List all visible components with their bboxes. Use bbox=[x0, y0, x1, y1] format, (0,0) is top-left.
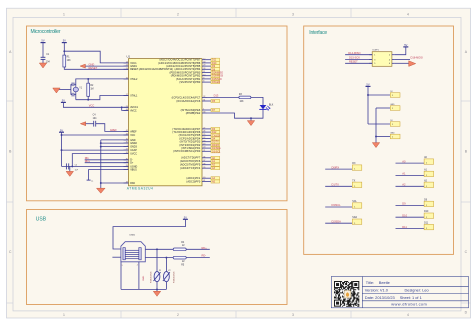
svg-text:3: 3 bbox=[374, 59, 375, 61]
svg-text:9: 9 bbox=[203, 78, 204, 80]
net label RD- bbox=[85, 156, 90, 160]
wire PAD row bbox=[101, 182, 129, 184]
title block text bbox=[365, 280, 429, 307]
resistor R3 bbox=[239, 94, 251, 103]
wire R4 to RD+ bbox=[186, 248, 210, 250]
svg-text:TX: TX bbox=[352, 180, 355, 182]
power +5V symbol at R1 bbox=[62, 39, 67, 43]
net label GND1 vertical bbox=[143, 276, 145, 281]
svg-text:1: 1 bbox=[203, 109, 204, 111]
svg-text:D11: D11 bbox=[424, 223, 429, 225]
svg-text:5: 5 bbox=[122, 265, 123, 267]
U1 value ATMEGA32U4 bbox=[127, 187, 154, 191]
wire GND row1 bbox=[101, 139, 129, 141]
ground port arrow right at ICSP bbox=[409, 61, 416, 67]
USB connector contacts bbox=[123, 248, 141, 260]
wire ICSP RESET bbox=[345, 62, 372, 64]
svg-text:D16-MOSI: D16-MOSI bbox=[411, 56, 424, 60]
wire UVCC row bbox=[72, 154, 128, 167]
node VCC row bbox=[61, 134, 63, 136]
ground at crystal bbox=[53, 88, 60, 93]
wire C1 to gnd bbox=[42, 59, 44, 63]
value label PGB1010603 Z1 bbox=[150, 272, 152, 283]
svg-text:1: 1 bbox=[392, 95, 393, 97]
USB connector USB1 shell bbox=[121, 235, 145, 262]
svg-text:A1: A1 bbox=[402, 172, 406, 176]
net label D14-MISO bbox=[348, 51, 360, 55]
wire AVCC1 net bbox=[63, 102, 128, 107]
node header tap1 bbox=[367, 94, 369, 96]
wire UCAP row bbox=[62, 149, 129, 151]
wire ICSP SCK bbox=[345, 58, 372, 60]
svg-text:26: 26 bbox=[203, 131, 205, 133]
power +5V symbol at VCC bbox=[59, 128, 64, 132]
svg-text:(ICP3/CLK0/OC4A)PC7: (ICP3/CLK0/OC4A)PC7 bbox=[172, 96, 201, 99]
svg-text:5: 5 bbox=[374, 63, 375, 65]
wire VBUS stub down bbox=[88, 169, 90, 180]
svg-text:1M: 1M bbox=[90, 88, 93, 90]
svg-text:Date: 2013/10/23: Date: 2013/10/23 bbox=[365, 295, 395, 300]
title block frame bbox=[331, 277, 468, 308]
svg-text:GND: GND bbox=[390, 104, 395, 106]
wire R3 to LED bbox=[251, 97, 263, 105]
ESD diode Z2 bbox=[163, 258, 171, 290]
capacitor C1 bbox=[41, 54, 51, 63]
svg-text:RESET: RESET bbox=[349, 60, 358, 64]
svg-text:GND1: GND1 bbox=[143, 276, 145, 281]
U1 left pins with numbers and names bbox=[124, 62, 174, 185]
crystal Y1 bbox=[73, 87, 83, 92]
svg-text:20: 20 bbox=[203, 147, 205, 149]
net label GND bbox=[89, 62, 95, 66]
svg-text:PAD: PAD bbox=[130, 182, 135, 185]
wire R1 to RESET pin bbox=[64, 67, 128, 69]
svg-text:29: 29 bbox=[203, 65, 205, 67]
svg-text:37: 37 bbox=[203, 160, 205, 162]
svg-text:C5: C5 bbox=[75, 165, 77, 167]
wire gnd to C4 bbox=[86, 123, 94, 125]
svg-text:4: 4 bbox=[407, 313, 409, 317]
svg-text:AREF: AREF bbox=[110, 128, 117, 132]
svg-text:Title:: Title: bbox=[366, 280, 374, 285]
svg-text:1: 1 bbox=[63, 13, 65, 17]
svg-text:25: 25 bbox=[203, 134, 205, 136]
svg-text:RESET: RESET bbox=[89, 66, 98, 70]
Interface section title bbox=[309, 30, 327, 36]
wire GND net bbox=[85, 65, 128, 67]
node D- branch bbox=[165, 257, 167, 259]
wire AVCC branch bbox=[122, 107, 129, 110]
header connector pins P1-P4 bbox=[390, 91, 400, 139]
node UCAP row bbox=[61, 149, 63, 151]
svg-text:D11: D11 bbox=[402, 225, 407, 229]
capacitor C4 (AREF) bbox=[93, 115, 98, 127]
ICSP1 pins bbox=[369, 55, 395, 66]
power +5V symbol USB bbox=[183, 215, 188, 219]
svg-text:41: 41 bbox=[203, 180, 205, 182]
svg-text:D10: D10 bbox=[424, 211, 429, 213]
wire VCC row bbox=[62, 134, 129, 136]
wire gnd stub USB bbox=[156, 289, 158, 291]
svg-text:1: 1 bbox=[426, 217, 427, 219]
wire header 5V rail bbox=[367, 86, 369, 124]
svg-text:2: 2 bbox=[177, 13, 179, 17]
svg-text:1: 1 bbox=[63, 313, 65, 317]
resistor R4 bbox=[173, 242, 186, 251]
svg-text:1: 1 bbox=[426, 228, 427, 230]
svg-text:1: 1 bbox=[426, 163, 427, 165]
ground at LED bbox=[247, 121, 254, 126]
resistor R1 bbox=[63, 55, 71, 67]
wire D+ row bbox=[145, 248, 173, 250]
node gnd2 bbox=[100, 142, 102, 144]
wire header gnd rail bbox=[375, 108, 377, 143]
USB section title bbox=[36, 217, 47, 223]
connector ICSP1 body bbox=[372, 50, 392, 67]
power +5V at header bbox=[366, 83, 371, 87]
wire 5V to USB VBUS bbox=[113, 219, 185, 249]
net label D16-MOSI bbox=[411, 56, 424, 60]
ground below C1 bbox=[39, 63, 46, 68]
svg-text:AREF: AREF bbox=[130, 130, 137, 133]
wire xtal cap rail bbox=[70, 84, 72, 94]
wire GND bus vertical bbox=[100, 140, 102, 188]
svg-text:1: 1 bbox=[354, 186, 355, 188]
USB pin stub left bbox=[112, 256, 121, 258]
svg-text:3: 3 bbox=[292, 313, 294, 317]
power +5V at ICSP bbox=[403, 43, 408, 47]
wire XTAL2 net bbox=[76, 79, 129, 87]
svg-text:4: 4 bbox=[389, 59, 390, 61]
ground at USB bbox=[153, 291, 160, 296]
svg-text:GND: GND bbox=[89, 62, 95, 66]
power +5V symbol at C1 bbox=[41, 39, 46, 43]
svg-text:6: 6 bbox=[389, 63, 390, 65]
svg-text:Microcontroller: Microcontroller bbox=[31, 29, 61, 35]
svg-text:30: 30 bbox=[203, 62, 205, 64]
wire 5V to R1 node bbox=[63, 43, 65, 56]
svg-text:32: 32 bbox=[203, 96, 205, 98]
wire tap4 bbox=[376, 136, 390, 138]
svg-text:(INT0/OC0B/SCL)PD0: (INT0/OC0B/SCL)PD0 bbox=[173, 150, 201, 153]
node R2 bottom junction bbox=[87, 99, 89, 101]
svg-text:D3/SCL: D3/SCL bbox=[212, 150, 221, 153]
svg-text:1: 1 bbox=[354, 223, 355, 225]
wire crystal bottom bbox=[75, 92, 77, 100]
svg-text:VBUS: VBUS bbox=[130, 168, 137, 171]
node XTAL2-R2 junction bbox=[87, 78, 89, 80]
svg-text:UVCC: UVCC bbox=[130, 153, 137, 156]
wire D- net bbox=[85, 159, 129, 161]
svg-text:XTAL1: XTAL1 bbox=[130, 94, 138, 97]
svg-text:28: 28 bbox=[203, 68, 205, 70]
svg-text:(OC3A/#OC4A)PC6: (OC3A/#OC4A)PC6 bbox=[176, 100, 201, 103]
wire ICSP pin6 bbox=[395, 62, 409, 64]
svg-text:36: 36 bbox=[203, 156, 205, 158]
svg-text:VCC: VCC bbox=[130, 134, 135, 137]
wire gnd stub bbox=[250, 118, 252, 120]
svg-text:12: 12 bbox=[203, 58, 205, 60]
wire ICSP pin2 to 5V bbox=[395, 47, 406, 55]
svg-text:A0: A0 bbox=[402, 159, 406, 163]
test point T bar bbox=[87, 180, 94, 183]
svg-text:U1: U1 bbox=[127, 54, 131, 58]
connectors RX TX SCL SDA bbox=[325, 163, 362, 225]
svg-text:10K: 10K bbox=[240, 101, 245, 103]
net label VCC on AVCC wire bbox=[89, 104, 95, 108]
svg-text:22: 22 bbox=[203, 137, 205, 139]
svg-text:Sheet: 1 of 1: Sheet: 1 of 1 bbox=[400, 295, 422, 300]
net label RD- bbox=[202, 254, 207, 258]
svg-text:2: 2 bbox=[389, 55, 390, 57]
wire D13 to R3 bbox=[207, 96, 239, 98]
LED BLK bbox=[259, 104, 273, 110]
svg-text:39: 39 bbox=[203, 167, 205, 169]
svg-text:RESET (ADC12/OC1A/OC4B/PCINT12: RESET (ADC12/OC1A/OC4B/PCINT12) bbox=[130, 68, 173, 71]
svg-text:USB1: USB1 bbox=[129, 235, 135, 237]
wire 5V to C1 bbox=[42, 43, 44, 58]
svg-text:38: 38 bbox=[203, 163, 205, 165]
node UVCC-cap junction bbox=[71, 165, 73, 167]
svg-text:D15-SCK: D15-SCK bbox=[349, 56, 360, 60]
svg-text:3: 3 bbox=[292, 13, 294, 17]
svg-text:XTAL2: XTAL2 bbox=[130, 78, 138, 81]
svg-text:10: 10 bbox=[203, 74, 205, 76]
net label D13 on LED wire bbox=[214, 94, 219, 98]
USB pin numbers bbox=[122, 265, 138, 268]
svg-text:(#HWB)PE2: (#HWB)PE2 bbox=[186, 112, 201, 115]
USB lower body bbox=[121, 262, 166, 290]
svg-text:1: 1 bbox=[426, 186, 427, 188]
net label RD+ bbox=[202, 246, 208, 250]
wire D- row bbox=[145, 257, 173, 259]
svg-text:19: 19 bbox=[203, 144, 205, 146]
svg-text:RD+: RD+ bbox=[202, 246, 208, 250]
node gnd3 bbox=[100, 146, 102, 148]
svg-text:1: 1 bbox=[426, 175, 427, 177]
svg-text:40: 40 bbox=[203, 177, 205, 179]
svg-text:4: 4 bbox=[407, 13, 409, 17]
net label RESET bbox=[89, 66, 98, 70]
svg-text:Interface: Interface bbox=[309, 30, 327, 36]
ground at GND bus bbox=[97, 188, 106, 193]
svg-text:2: 2 bbox=[177, 313, 179, 317]
svg-text:D2/SDA: D2/SDA bbox=[332, 219, 342, 223]
svg-text:PGB1010603: PGB1010603 bbox=[174, 272, 176, 283]
capacitor C3 (bottom xtal cap) bbox=[71, 93, 76, 97]
svg-text:Designer: Leo: Designer: Leo bbox=[405, 288, 429, 293]
wire tap3 bbox=[368, 123, 390, 125]
U1 right net label boxes bbox=[207, 58, 223, 183]
svg-text:1: 1 bbox=[392, 124, 393, 126]
svg-text:USB: USB bbox=[36, 217, 47, 223]
svg-text:BLK: BLK bbox=[269, 104, 274, 106]
wire GND row2 bbox=[101, 142, 129, 144]
wire 5V vertical rail bbox=[61, 132, 63, 166]
svg-text:RD-: RD- bbox=[202, 254, 207, 258]
node R1 top junction bbox=[63, 50, 65, 52]
node header tap4 bbox=[375, 136, 377, 138]
power +5V symbol at AVCC bbox=[61, 99, 66, 103]
svg-text:27: 27 bbox=[203, 128, 205, 130]
svg-text:ATMEGA32U4: ATMEGA32U4 bbox=[127, 187, 154, 191]
op-amp? no - IC U1 body bbox=[129, 59, 203, 186]
svg-text:PGB1010603: PGB1010603 bbox=[150, 272, 152, 283]
svg-text:Beetle: Beetle bbox=[379, 280, 390, 285]
net label AREF bbox=[110, 128, 117, 132]
svg-text:1: 1 bbox=[374, 55, 375, 57]
Microcontroller section box bbox=[27, 26, 288, 201]
Interface section box bbox=[304, 26, 454, 254]
svg-text:1: 1 bbox=[392, 137, 393, 139]
wire cap to gnd stub bbox=[69, 166, 71, 171]
value label PGB1010603 Z2 bbox=[174, 272, 176, 283]
node LED gnd junction bbox=[250, 117, 252, 119]
USB section box bbox=[27, 210, 288, 305]
svg-text:33: 33 bbox=[203, 112, 205, 114]
ground port arrow at C4 bbox=[80, 122, 85, 126]
svg-text:Z1: Z1 bbox=[159, 270, 161, 272]
svg-text:D0/RX: D0/RX bbox=[332, 165, 340, 169]
svg-text:www.dfrobot.com: www.dfrobot.com bbox=[391, 302, 427, 307]
svg-text:VCC: VCC bbox=[89, 104, 95, 108]
svg-text:21: 21 bbox=[203, 150, 205, 152]
capacitor C2 (top xtal cap) bbox=[71, 83, 76, 87]
svg-text:D14-MISO: D14-MISO bbox=[348, 51, 360, 55]
svg-text:D9: D9 bbox=[402, 202, 406, 206]
svg-text:Z2: Z2 bbox=[168, 270, 170, 272]
svg-text:SDA: SDA bbox=[352, 216, 357, 219]
svg-text:(ADC0)PF0: (ADC0)PF0 bbox=[186, 180, 200, 183]
node gnd rail junction bbox=[156, 288, 158, 290]
wire ICSP MISO bbox=[345, 54, 372, 56]
wire AREF net bbox=[96, 124, 129, 132]
wire LED cathode bbox=[207, 109, 263, 118]
wire VBUS row bbox=[89, 168, 129, 170]
svg-text:10K: 10K bbox=[67, 60, 72, 62]
ESD diode Z1 bbox=[154, 249, 162, 289]
svg-text:RXLED: RXLED bbox=[212, 81, 220, 84]
wire VCC1 net bbox=[64, 51, 128, 63]
svg-text:D1/TX: D1/TX bbox=[332, 183, 340, 187]
resistor R2 bbox=[87, 79, 94, 100]
node AVCC branch bbox=[121, 106, 123, 108]
svg-text:1: 1 bbox=[426, 205, 427, 207]
wire GND row3 bbox=[101, 146, 129, 148]
wire rail to gnd bbox=[56, 89, 71, 91]
svg-text:D10: D10 bbox=[402, 213, 407, 217]
capacitor C5 bbox=[66, 163, 78, 171]
svg-text:(SS/PCINT0)PB0: (SS/PCINT0)PB0 bbox=[179, 81, 200, 84]
connectors A0 A1 A2 D9 D10 D11 bbox=[396, 156, 434, 230]
svg-text:ICSP1: ICSP1 bbox=[372, 50, 379, 52]
wire ICSP pin4 bbox=[395, 58, 410, 60]
wire tap2 bbox=[376, 107, 390, 109]
ground at header bbox=[372, 143, 379, 148]
net label RESET2 bbox=[349, 60, 358, 64]
svg-text:31: 31 bbox=[203, 100, 205, 102]
wire D+ net bbox=[85, 162, 129, 164]
svg-text:1: 1 bbox=[354, 169, 355, 171]
svg-text:A2: A2 bbox=[402, 183, 406, 187]
U1 refdes bbox=[127, 54, 131, 58]
svg-text:1: 1 bbox=[392, 108, 393, 110]
svg-text:RD+: RD+ bbox=[85, 159, 91, 163]
svg-text:D3/SCL: D3/SCL bbox=[332, 203, 342, 207]
svg-text:1: 1 bbox=[354, 207, 355, 209]
resistor R5 bbox=[173, 256, 186, 266]
svg-text:T1: T1 bbox=[91, 181, 93, 183]
svg-text:RX: RX bbox=[352, 163, 356, 165]
wire R5 to RD- bbox=[186, 257, 210, 259]
net label D15-SCK bbox=[349, 56, 360, 60]
svg-text:11: 11 bbox=[203, 71, 205, 73]
svg-text:AVCC: AVCC bbox=[130, 109, 137, 112]
node D+ branch bbox=[156, 248, 158, 250]
svg-text:GND: GND bbox=[390, 132, 395, 134]
U1 right pins with numbers and names bbox=[158, 58, 207, 183]
svg-text:SCL: SCL bbox=[352, 201, 357, 203]
wire tap1 bbox=[368, 94, 390, 96]
svg-text:8: 8 bbox=[203, 81, 204, 83]
wire XTAL1 net bbox=[76, 96, 129, 100]
QR code logo bbox=[334, 281, 359, 307]
net label RD+ bbox=[85, 159, 91, 163]
svg-text:(ADC4/TCK)PF4: (ADC4/TCK)PF4 bbox=[180, 167, 201, 170]
node pad bbox=[100, 182, 102, 184]
Microcontroller section title bbox=[31, 29, 61, 35]
svg-text:18: 18 bbox=[203, 140, 205, 142]
wire UGND row with C5 bbox=[62, 165, 129, 167]
ground port arrow GND net bbox=[80, 64, 85, 68]
svg-text:Version: V1.0: Version: V1.0 bbox=[365, 288, 389, 293]
ground below C5 bbox=[66, 171, 73, 176]
svg-text:4: 4 bbox=[137, 265, 138, 267]
